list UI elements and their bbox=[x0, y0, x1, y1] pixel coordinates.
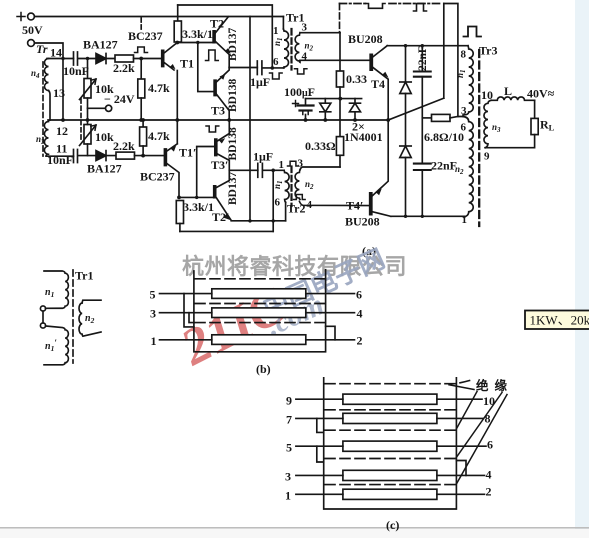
resistor R5 0.33 upper bbox=[336, 33, 343, 99]
section b transformer Tr1 winding n1 bbox=[44, 271, 68, 308]
diode D1 BA127 upper bbox=[96, 54, 115, 64]
svg-text:(b): (b) bbox=[256, 362, 271, 376]
wire clamp to lower 0.33 bbox=[339, 99, 341, 137]
right edge blue strip bbox=[575, 0, 589, 538]
svg-text:Tr1: Tr1 bbox=[75, 269, 93, 283]
svg-text:7: 7 bbox=[286, 413, 292, 427]
section c lead 1 bbox=[296, 493, 343, 495]
tooltip box 1KW 20kHZ bbox=[525, 311, 589, 330]
section b labels bbox=[150, 287, 363, 376]
svg-text:T1′: T1′ bbox=[179, 146, 196, 160]
wire Tr1 pin3 bbox=[300, 32, 340, 34]
section b lead 1 bbox=[160, 339, 212, 341]
svg-text:3: 3 bbox=[298, 158, 304, 170]
junction dots bbox=[61, 41, 424, 223]
section c winding bar C bbox=[343, 441, 437, 451]
mid rail bus wire bbox=[48, 119, 388, 121]
gang link dashed pot1-pot2 bbox=[80, 99, 82, 142]
resistor R6 4.7k lower bbox=[140, 120, 147, 155]
wire bottom emitter bus bbox=[231, 220, 285, 222]
waveform glyph Tr2 secondary bbox=[294, 195, 306, 200]
waveform glyph below pin6 bbox=[270, 73, 283, 79]
waveform notch glyph on boundary bbox=[366, 4, 385, 9]
svg-text:6: 6 bbox=[275, 197, 281, 209]
svg-text:2.2k: 2.2k bbox=[113, 139, 135, 153]
svg-text:BC237: BC237 bbox=[128, 29, 163, 43]
svg-text:T3′: T3′ bbox=[211, 158, 228, 172]
junction pin6 node bbox=[271, 66, 275, 70]
svg-text:40V≈: 40V≈ bbox=[527, 87, 555, 101]
waveform glyph lower bases bbox=[206, 126, 219, 132]
wire bootstrap vertical lower bbox=[272, 170, 274, 231]
svg-text:13: 13 bbox=[53, 86, 65, 100]
svg-text:1: 1 bbox=[151, 334, 157, 348]
svg-text:BA127: BA127 bbox=[83, 38, 118, 52]
section b lead 3 bbox=[160, 312, 212, 314]
section c winding bar B bbox=[343, 413, 437, 423]
transformer Tr2 primary n1 bbox=[284, 170, 289, 202]
capacitor C3 1uF upper bbox=[257, 61, 284, 75]
wire Tr1 pin4 to T4 base bbox=[300, 59, 370, 61]
svg-text:1: 1 bbox=[279, 159, 285, 171]
capacitor C2 10nF lower bbox=[74, 150, 97, 163]
svg-text:1μF: 1μF bbox=[250, 75, 270, 89]
transformer Tr2 secondary n2 bbox=[295, 170, 300, 200]
svg-text:10nF: 10nF bbox=[63, 64, 89, 78]
potentiometer VR2 10k lower bbox=[80, 120, 97, 156]
svg-text:50V: 50V bbox=[22, 23, 43, 37]
svg-text:Tr3: Tr3 bbox=[479, 44, 497, 58]
transformer Tr core bbox=[42, 62, 44, 156]
section c bracket 5 bbox=[317, 446, 324, 462]
svg-text:1μF: 1μF bbox=[253, 150, 273, 164]
wire to -24V terminal bbox=[88, 107, 106, 109]
waveform glyph driver bases bbox=[206, 50, 219, 61]
svg-text:3: 3 bbox=[461, 105, 467, 117]
svg-text:6: 6 bbox=[461, 122, 467, 134]
section c lead 10 bbox=[437, 398, 482, 400]
transistor Q3 T3 BD138 bbox=[214, 68, 229, 121]
svg-text:22nF: 22nF bbox=[431, 159, 457, 173]
svg-text:3: 3 bbox=[285, 470, 291, 484]
svg-text:3: 3 bbox=[302, 22, 308, 34]
svg-text:BD137: BD137 bbox=[227, 172, 239, 205]
labels top-left bbox=[22, 17, 229, 225]
svg-text:6: 6 bbox=[273, 56, 279, 68]
svg-text:T3: T3 bbox=[211, 104, 225, 118]
svg-text:8: 8 bbox=[485, 412, 491, 426]
resistor R7 6.8ohm bbox=[422, 114, 463, 121]
svg-text:6: 6 bbox=[356, 287, 362, 301]
transformer Tr winding n4 bbox=[45, 59, 49, 91]
capacitor C5 100uF bbox=[293, 99, 314, 120]
wire bases tie lower bbox=[179, 196, 214, 198]
svg-text:100μF: 100μF bbox=[284, 85, 315, 99]
svg-text:L: L bbox=[504, 84, 512, 98]
potentiometer VR1 10k upper bbox=[80, 59, 97, 121]
svg-text:T4: T4 bbox=[371, 77, 385, 91]
svg-text:BC237: BC237 bbox=[140, 170, 175, 184]
section b box bbox=[194, 270, 326, 352]
section c insulation dash row 5 bbox=[325, 484, 456, 486]
transformer Tr3 secondary n3 bbox=[484, 100, 491, 147]
section b transformer winding n2 bbox=[79, 300, 101, 336]
svg-text:6: 6 bbox=[487, 438, 493, 452]
section b winding bar 2 bbox=[212, 308, 306, 318]
svg-text:3.3k/1: 3.3k/1 bbox=[182, 27, 213, 41]
transformer Tr3 core bbox=[478, 50, 480, 226]
wire bootstrap bottom lower bbox=[180, 230, 273, 232]
svg-text:4.7k: 4.7k bbox=[148, 81, 170, 95]
wire RL return bbox=[485, 135, 535, 148]
svg-text:1: 1 bbox=[273, 25, 279, 37]
capacitor C4 1uF lower bbox=[258, 163, 284, 177]
section b bracket 3 bbox=[189, 313, 194, 323]
transistor Q5 T3' BD138 bbox=[215, 120, 229, 170]
svg-text:14: 14 bbox=[50, 46, 62, 60]
waveform glyph Tr2 pin1 bbox=[288, 161, 299, 166]
svg-text:(c): (c) bbox=[386, 518, 399, 532]
transistor Q7 T4 BU208 bbox=[370, 46, 388, 120]
wire T4 collector line bbox=[387, 45, 468, 47]
plus terminal bbox=[17, 13, 34, 21]
svg-text:− 24V: − 24V bbox=[104, 92, 135, 106]
svg-text:Tr2: Tr2 bbox=[287, 202, 305, 216]
section b lead 4 bbox=[306, 312, 355, 314]
svg-text:8: 8 bbox=[461, 49, 467, 61]
svg-text:绝缘: 绝缘 bbox=[476, 378, 513, 393]
section c lead 9 bbox=[296, 398, 343, 400]
transistor Q2 T2 BD137 bbox=[213, 17, 231, 68]
wire tap13 to mid rail bbox=[49, 91, 51, 121]
dashed pointer BC237 bbox=[140, 18, 142, 30]
section c callout line 3 bbox=[456, 393, 502, 458]
svg-text:9: 9 bbox=[484, 151, 490, 163]
transformer Tr2 core bbox=[290, 167, 292, 207]
svg-text:10nF: 10nF bbox=[47, 153, 73, 167]
transistor Q1 T1 BC237 bbox=[162, 43, 177, 121]
node A base of T1 bbox=[139, 57, 143, 61]
svg-text:BD138: BD138 bbox=[227, 79, 239, 112]
svg-text:0.33: 0.33 bbox=[346, 72, 367, 86]
resistor R5b 0.33 lower bbox=[336, 137, 343, 167]
section b winding bar 3 bbox=[212, 335, 306, 345]
capacitor C7 22nF lower bbox=[414, 164, 431, 217]
section c lead 6 bbox=[437, 445, 486, 447]
section b lead 6 bbox=[306, 293, 355, 295]
section c labels bbox=[285, 378, 513, 532]
section b lead 2 bbox=[306, 339, 355, 341]
diode D5 damper upper bbox=[400, 46, 411, 146]
waveform glyph at Tr3 bbox=[464, 27, 482, 37]
wire tap 11 bbox=[46, 154, 74, 156]
transformer Tr1 core bbox=[290, 29, 292, 70]
section c insulation dash row 2 bbox=[325, 409, 456, 411]
svg-text:BA127: BA127 bbox=[87, 162, 122, 176]
wire Tr2 pin3 bbox=[300, 167, 340, 170]
dash-dot module boundary left bbox=[339, 4, 341, 33]
section c winding bar E bbox=[343, 489, 437, 499]
svg-text:1: 1 bbox=[285, 489, 291, 503]
terminal 50V input circle bbox=[28, 40, 35, 47]
svg-text:10: 10 bbox=[483, 394, 495, 408]
section c lead 3 bbox=[296, 474, 343, 476]
diode D4 1N4001 bbox=[350, 99, 361, 120]
capacitor C6 22nF upper bbox=[414, 46, 431, 164]
svg-text:4: 4 bbox=[307, 199, 313, 211]
section b right step bbox=[326, 326, 335, 340]
node B base of T1' bbox=[141, 154, 145, 158]
diode D2 BA127 lower bbox=[96, 151, 116, 161]
wire return vertical bbox=[443, 4, 445, 99]
waveform glyph Tr1 secondary bbox=[295, 69, 307, 74]
resistor R3 3.3k/1 upper bbox=[174, 5, 181, 42]
wire Tr2 pin6 down bbox=[285, 202, 287, 221]
section c lead 8 bbox=[437, 417, 484, 419]
wire clamp node bbox=[306, 98, 362, 100]
svg-text:3: 3 bbox=[150, 307, 156, 321]
section b bracket 5 bbox=[184, 294, 194, 327]
resistor R4 2.2k lower bbox=[116, 152, 165, 159]
svg-text:22nF: 22nF bbox=[417, 46, 429, 71]
svg-text:4: 4 bbox=[302, 51, 308, 63]
section b transformer core bbox=[72, 270, 74, 363]
section b winding bar 1 bbox=[212, 289, 306, 299]
wire input to tap14 bbox=[35, 43, 64, 120]
waveform glyph near BC237 bbox=[135, 47, 148, 53]
bottom page divider line bbox=[0, 527, 589, 529]
svg-text:4: 4 bbox=[486, 468, 492, 482]
wire supply bridge top bbox=[444, 4, 458, 117]
waveform glyph top right bbox=[414, 4, 427, 12]
wire long vertical feed bbox=[249, 17, 251, 222]
section c insulation dash row 4 bbox=[325, 458, 456, 460]
section c callout line 4 bbox=[456, 395, 507, 485]
svg-text:BU208: BU208 bbox=[348, 32, 383, 46]
section c bracket 7 bbox=[317, 418, 324, 432]
transformer Tr1 primary n1 bbox=[283, 29, 288, 68]
section c callout line 2 bbox=[456, 392, 477, 429]
top supply rail wire bbox=[35, 16, 284, 18]
section c insulation dash row 3 bbox=[325, 429, 456, 431]
wire bottom output bus bbox=[391, 215, 465, 217]
terminal -24V bbox=[106, 105, 112, 111]
wire output node upper bbox=[229, 67, 257, 69]
resistor R8 3.3k/1 lower bbox=[176, 201, 183, 232]
svg-text:10k: 10k bbox=[95, 130, 114, 144]
section c box bbox=[324, 378, 457, 509]
wire branch to T3 base bbox=[198, 43, 215, 92]
resistor R2 4.7k upper bbox=[138, 59, 145, 121]
section b insulation dashes bbox=[195, 278, 325, 280]
svg-text:1KW、20kHZ: 1KW、20kHZ bbox=[530, 313, 589, 328]
wire tap 14 bbox=[47, 58, 74, 60]
wire mid node diagonal bbox=[388, 98, 444, 120]
svg-text:9: 9 bbox=[286, 394, 292, 408]
diode D6 damper lower bbox=[400, 146, 411, 216]
inductor L bbox=[491, 97, 535, 100]
wire output node lower bbox=[229, 169, 257, 171]
transformer Tr3 winding n2 bbox=[463, 117, 473, 218]
svg-text:T2: T2 bbox=[210, 17, 224, 31]
section b lead 5 bbox=[160, 293, 212, 295]
transistor Q4 T1' BC237 bbox=[165, 120, 179, 197]
svg-text:12: 12 bbox=[56, 124, 68, 138]
transistor Q8 T4' BU208 bbox=[370, 120, 391, 216]
svg-text:1: 1 bbox=[462, 214, 468, 226]
wire rail down to Tr1 pin1 bbox=[282, 17, 284, 30]
svg-text:5: 5 bbox=[150, 288, 156, 302]
svg-text:T4′: T4′ bbox=[346, 199, 363, 213]
section c insulation dash row 1 bbox=[325, 381, 470, 384]
svg-text:10: 10 bbox=[481, 88, 493, 102]
section c callout line 1 bbox=[449, 385, 474, 390]
svg-text:6.8Ω/10: 6.8Ω/10 bbox=[424, 130, 464, 144]
resistor R1 2.2k upper bbox=[115, 55, 162, 62]
svg-text:BU208: BU208 bbox=[345, 215, 380, 229]
section c lead 5 bbox=[296, 445, 343, 447]
bootstrap wire top box bbox=[178, 5, 273, 68]
wire Tr2 pin4 to T4' base bbox=[299, 201, 370, 205]
section c lead 2 bbox=[437, 493, 485, 495]
capacitor C1 10nF upper bbox=[74, 52, 97, 65]
node diode clamp bbox=[338, 97, 342, 101]
svg-text:3.3k/1: 3.3k/1 bbox=[183, 200, 214, 214]
section c right step bbox=[456, 461, 466, 476]
svg-text:2: 2 bbox=[486, 485, 492, 499]
section c winding bar A bbox=[343, 394, 437, 404]
resistor RL load bbox=[531, 118, 538, 134]
diode D3 1N4001 bbox=[320, 99, 331, 120]
wire T1 collector to bases bbox=[177, 42, 213, 44]
section b terminal circles bbox=[40, 306, 45, 311]
svg-text:1N4001: 1N4001 bbox=[344, 130, 383, 144]
dash-dot module boundary top bbox=[340, 3, 367, 5]
transistor Q6 T2' BD137 bbox=[214, 170, 231, 220]
transformer Tr3 winding n1 bbox=[463, 46, 473, 115]
svg-text:5: 5 bbox=[286, 441, 292, 455]
svg-text:2: 2 bbox=[357, 334, 363, 348]
section b transformer labels bbox=[45, 269, 95, 354]
transformer Tr1 secondary n2 bbox=[295, 33, 300, 63]
junction Tr2 pin1 node bbox=[271, 169, 275, 173]
transformer Tr winding n3 bbox=[44, 120, 50, 154]
svg-text:4.7k: 4.7k bbox=[148, 129, 170, 143]
svg-text:Tr: Tr bbox=[36, 42, 48, 56]
svg-text:T1: T1 bbox=[180, 57, 194, 71]
svg-text:BD138: BD138 bbox=[227, 127, 239, 160]
svg-text:2.2k: 2.2k bbox=[113, 61, 135, 75]
svg-text:BD137: BD137 bbox=[227, 28, 239, 61]
svg-text:0.33Ω: 0.33Ω bbox=[305, 139, 336, 153]
section b transformer winding n1' bbox=[44, 326, 68, 365]
wire L to RL bbox=[534, 100, 536, 118]
wire branch to T3' base bbox=[197, 147, 215, 198]
svg-text:4: 4 bbox=[357, 306, 363, 320]
section c lead 7 bbox=[296, 417, 343, 419]
section c winding bar D bbox=[343, 470, 437, 480]
labels driver and output stage bbox=[227, 11, 555, 259]
section c lead 4 bbox=[437, 474, 485, 476]
